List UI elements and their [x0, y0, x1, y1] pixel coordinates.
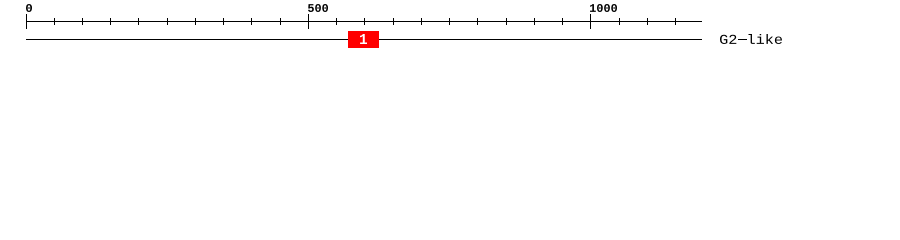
minor tick 700	[421, 18, 422, 25]
minor tick 600	[364, 18, 365, 25]
minor tick 350	[223, 18, 224, 25]
minor tick 550	[336, 18, 337, 25]
ruler main line	[26, 21, 702, 22]
minor tick 900	[534, 18, 535, 25]
feature box label 1 (white)	[360, 34, 367, 44]
minor tick 1150	[675, 18, 676, 25]
minor tick 150	[110, 18, 111, 25]
major tick 1000	[590, 14, 591, 29]
minor tick 850	[506, 18, 507, 25]
feature track line	[26, 39, 702, 40]
minor tick 1100	[647, 18, 648, 25]
minor tick 650	[393, 18, 394, 25]
minor tick 800	[477, 18, 478, 25]
major tick 500	[308, 14, 309, 29]
minor tick 400	[251, 18, 252, 25]
feature box 1 (red)	[348, 31, 379, 48]
minor tick 200	[138, 18, 139, 25]
minor tick 450	[280, 18, 281, 25]
minor tick 300	[195, 18, 196, 25]
major tick 0	[26, 14, 27, 29]
minor tick 50	[54, 18, 55, 25]
ruler label 1000	[590, 4, 617, 12]
minor tick 950	[562, 18, 563, 25]
ruler label 500	[308, 4, 328, 12]
background	[0, 0, 900, 58]
minor tick 1050	[619, 18, 620, 25]
minor tick 750	[449, 18, 450, 25]
track label G2-like	[720, 34, 782, 44]
minor tick 250	[167, 18, 168, 25]
minor tick 100	[82, 18, 83, 25]
ruler label 0	[26, 4, 32, 12]
